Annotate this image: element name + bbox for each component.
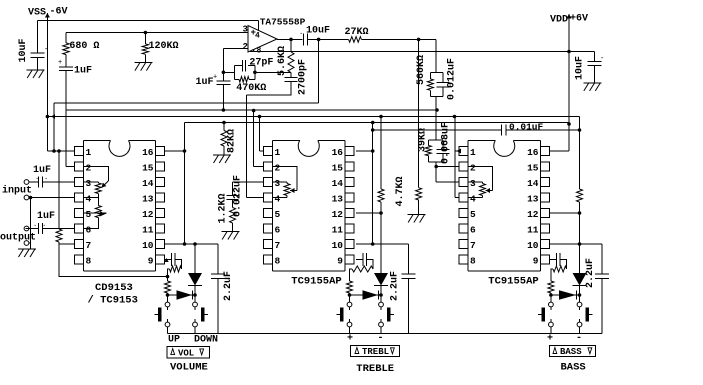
- svg-text:0.01uF: 0.01uF: [509, 122, 544, 133]
- svg-text:0.022uF: 0.022uF: [233, 175, 244, 217]
- svg-text:120KΩ: 120KΩ: [149, 41, 179, 52]
- svg-text:VOLUME: VOLUME: [170, 362, 208, 374]
- svg-text:560KΩ: 560KΩ: [416, 55, 427, 85]
- svg-text:+6V: +6V: [570, 14, 588, 25]
- svg-text:680 Ω: 680 Ω: [69, 41, 99, 52]
- svg-text:input: input: [2, 185, 32, 197]
- svg-text:1uF: 1uF: [196, 77, 214, 88]
- svg-text:BASS: BASS: [560, 347, 582, 357]
- svg-text:7: 7: [275, 240, 281, 251]
- svg-text:13: 13: [527, 194, 539, 205]
- svg-text:TC9155AP: TC9155AP: [488, 276, 538, 288]
- svg-text:11: 11: [332, 225, 344, 236]
- svg-text:14: 14: [527, 178, 539, 189]
- svg-text:12: 12: [142, 209, 154, 220]
- svg-text:10uF: 10uF: [18, 38, 29, 62]
- svg-text:10: 10: [142, 240, 154, 251]
- svg-text:2.2uF: 2.2uF: [390, 271, 401, 301]
- svg-text:2.2uF: 2.2uF: [585, 258, 596, 288]
- svg-text:2.2uF: 2.2uF: [223, 271, 234, 301]
- svg-text:2: 2: [243, 42, 248, 52]
- svg-text:3: 3: [243, 25, 248, 35]
- svg-text:5: 5: [275, 209, 281, 220]
- svg-text:-: -: [600, 55, 604, 63]
- svg-text:-: -: [576, 333, 582, 344]
- svg-text:0.012uF: 0.012uF: [447, 58, 458, 100]
- svg-text:+: +: [213, 74, 217, 82]
- svg-text:output: output: [0, 233, 36, 244]
- svg-text:10: 10: [332, 240, 344, 251]
- svg-text:13: 13: [332, 194, 344, 205]
- svg-text:39KΩ: 39KΩ: [418, 128, 429, 152]
- svg-text:470KΩ: 470KΩ: [236, 83, 266, 94]
- svg-text:7: 7: [86, 240, 92, 251]
- svg-text:.: .: [299, 29, 303, 37]
- svg-text:1: 1: [86, 147, 92, 158]
- svg-text:2: 2: [470, 163, 476, 174]
- svg-text:TC9155AP: TC9155AP: [291, 276, 341, 288]
- svg-text:0.068uF: 0.068uF: [441, 122, 452, 164]
- svg-text:8: 8: [470, 256, 476, 267]
- svg-text:6: 6: [86, 225, 92, 236]
- svg-text:10uF: 10uF: [575, 56, 586, 80]
- svg-text:1.2KΩ: 1.2KΩ: [218, 193, 229, 223]
- svg-text:8: 8: [275, 256, 281, 267]
- svg-text:CD9153: CD9153: [95, 282, 133, 294]
- svg-text:27pF: 27pF: [249, 58, 273, 69]
- svg-text:6: 6: [275, 225, 281, 236]
- svg-text:3: 3: [470, 178, 476, 189]
- svg-text:8: 8: [86, 256, 92, 267]
- svg-text:10: 10: [527, 240, 539, 251]
- svg-text:9: 9: [148, 256, 154, 267]
- svg-text:5: 5: [470, 209, 476, 220]
- svg-text:15: 15: [332, 163, 344, 174]
- svg-text:3: 3: [86, 178, 92, 189]
- svg-text:.: .: [33, 221, 37, 229]
- svg-text:4: 4: [86, 194, 92, 205]
- svg-text:1: 1: [470, 147, 476, 158]
- svg-text:/ TC9153: / TC9153: [88, 295, 138, 307]
- svg-text:VOL: VOL: [178, 348, 194, 358]
- svg-text:.: .: [42, 221, 46, 229]
- svg-text:+: +: [547, 334, 553, 345]
- svg-text:.: .: [44, 174, 48, 182]
- svg-text:VDD: VDD: [550, 15, 568, 26]
- svg-text:2700pF: 2700pF: [298, 59, 309, 95]
- svg-text:9: 9: [337, 256, 343, 267]
- svg-text:-: -: [378, 333, 384, 344]
- svg-text:TA75558P: TA75558P: [260, 16, 306, 27]
- svg-text:+: +: [347, 334, 353, 345]
- svg-text:15: 15: [527, 163, 539, 174]
- svg-text:3: 3: [275, 178, 281, 189]
- svg-text:16: 16: [527, 147, 539, 158]
- svg-text:82KΩ: 82KΩ: [227, 129, 238, 153]
- svg-text:-: -: [309, 29, 313, 37]
- svg-text:11: 11: [142, 225, 154, 236]
- svg-text:15: 15: [142, 163, 154, 174]
- svg-text:4: 4: [255, 32, 260, 41]
- svg-text:5: 5: [86, 209, 92, 220]
- svg-text:9: 9: [533, 256, 539, 267]
- svg-text:TREBL: TREBL: [362, 347, 389, 357]
- svg-text:-6V: -6V: [50, 7, 68, 18]
- svg-text:11: 11: [527, 225, 539, 236]
- svg-text:UP: UP: [168, 335, 180, 346]
- svg-text:12: 12: [332, 209, 344, 220]
- svg-text:.: .: [35, 174, 39, 182]
- svg-text:4: 4: [470, 194, 476, 205]
- svg-text:BASS: BASS: [561, 362, 586, 374]
- svg-text:1uF: 1uF: [74, 66, 92, 77]
- svg-text:-: -: [44, 46, 48, 54]
- svg-text:6: 6: [470, 225, 476, 236]
- svg-text:14: 14: [142, 178, 154, 189]
- svg-text:4.7KΩ: 4.7KΩ: [395, 176, 406, 206]
- svg-text:14: 14: [332, 178, 344, 189]
- svg-text:4: 4: [275, 194, 281, 205]
- svg-text:13: 13: [142, 194, 154, 205]
- svg-text:TREBLE: TREBLE: [356, 363, 394, 375]
- svg-text:2: 2: [275, 163, 281, 174]
- svg-text:VSS: VSS: [28, 8, 46, 19]
- svg-text:12: 12: [527, 209, 539, 220]
- svg-text:7: 7: [470, 240, 476, 251]
- svg-text:1: 1: [275, 147, 281, 158]
- svg-text:27KΩ: 27KΩ: [345, 27, 369, 38]
- svg-text:+: +: [58, 59, 62, 67]
- svg-text:DOWN: DOWN: [194, 335, 218, 346]
- svg-text:16: 16: [142, 147, 154, 158]
- svg-text:16: 16: [332, 147, 344, 158]
- svg-text:5.6KΩ: 5.6KΩ: [277, 46, 288, 76]
- svg-text:2: 2: [86, 163, 92, 174]
